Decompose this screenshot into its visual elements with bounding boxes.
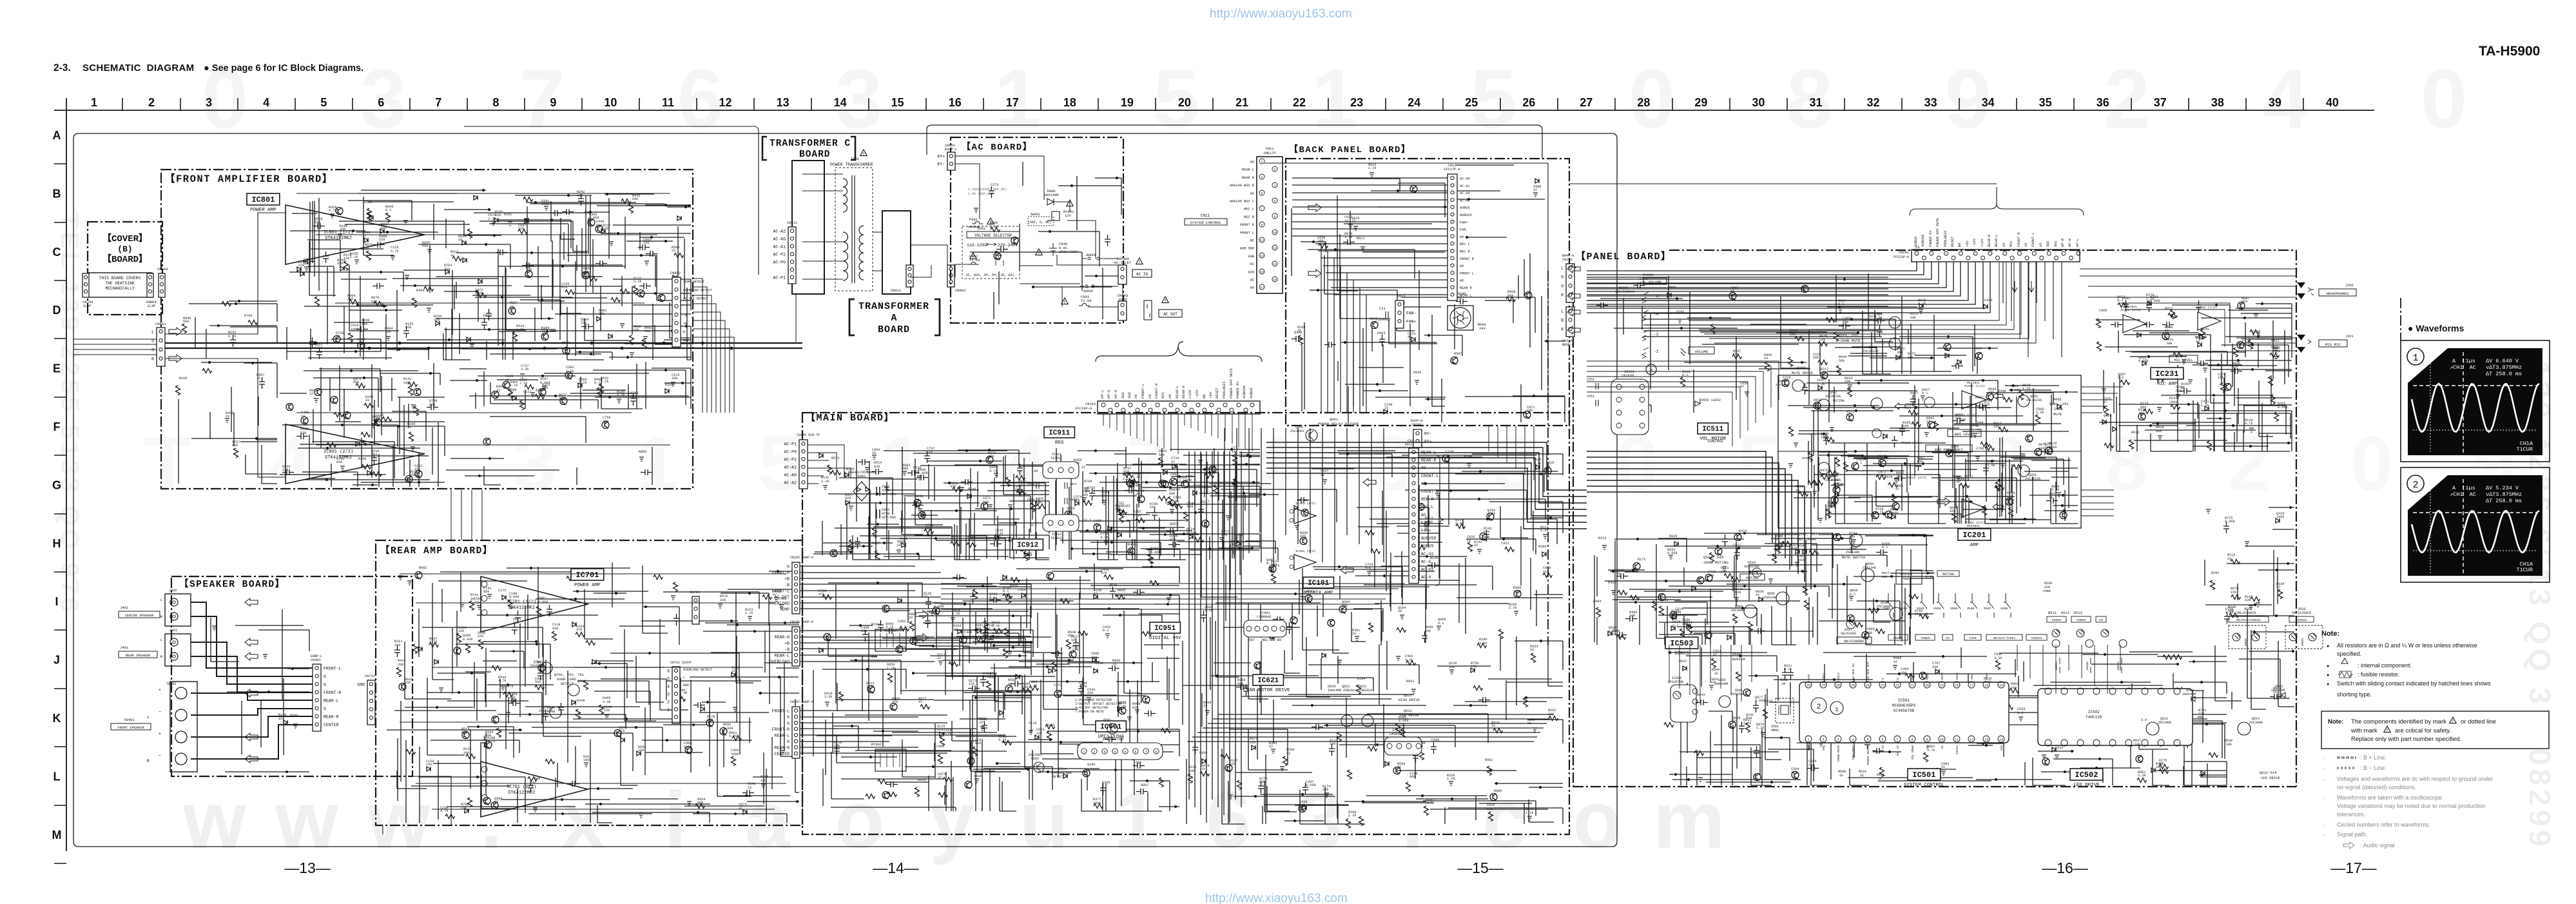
svg-text:T2.5A: T2.5A — [969, 258, 980, 262]
svg-text:22: 22 — [731, 669, 735, 673]
svg-text:56k: 56k — [1813, 356, 1819, 360]
diode D551 — [1695, 398, 1700, 406]
svg-text:19: 19 — [1121, 96, 1134, 109]
svg-text:.: . — [1402, 776, 1424, 865]
svg-text:1N4148M: 1N4148M — [2182, 693, 2196, 696]
svg-text:12: 12 — [719, 96, 732, 109]
svg-text:R950: R950 — [1010, 584, 1018, 588]
svg-text:LM393P: LM393P — [1390, 732, 1402, 736]
svg-text:AC-P0: AC-P0 — [784, 450, 797, 455]
svg-text:REAR-R: REAR-R — [324, 715, 339, 720]
capacitor C902 — [876, 509, 880, 518]
svg-text:1k: 1k — [336, 335, 340, 339]
svg-text:LB1638: LB1638 — [1622, 374, 1634, 378]
svg-text:CN731: CN731 — [365, 674, 375, 678]
svg-text:RES GND C: RES GND C — [1262, 638, 1279, 642]
svg-text:820: 820 — [975, 742, 981, 745]
svg-text:4: 4 — [1114, 751, 1116, 754]
svg-text:23: 23 — [1881, 684, 1884, 688]
svg-text:D727: D727 — [1165, 501, 1173, 505]
svg-text:100: 100 — [403, 381, 409, 385]
svg-text:R821: R821 — [2271, 339, 2279, 343]
svg-text:POWER OFF MUTE: POWER OFF MUTE — [1229, 368, 1234, 398]
svg-text:1k: 1k — [257, 377, 260, 380]
svg-text:VOL DOWN: VOL DOWN — [1911, 745, 1915, 760]
svg-text:—15—: —15— — [1457, 860, 1504, 876]
svg-text:22: 22 — [496, 389, 500, 393]
svg-text:25: 25 — [1465, 96, 1478, 109]
svg-text:1.2k: 1.2k — [510, 384, 518, 388]
svg-text:1: 1 — [91, 96, 97, 109]
svg-text:RV212 (2/2): RV212 (2/2) — [1906, 476, 1927, 480]
svg-text:2SC3623A: 2SC3623A — [2025, 477, 2040, 481]
svg-text:100: 100 — [1808, 763, 1814, 767]
svg-text:R977: R977 — [1910, 391, 1918, 395]
IC label IC801 — [247, 193, 280, 205]
svg-text:R843: R843 — [1697, 693, 1705, 697]
svg-text:68k: 68k — [632, 197, 638, 201]
svg-text:47: 47 — [450, 254, 454, 258]
op-amp IC201 1/2 — [1962, 391, 1986, 409]
svg-text:ΔT 258.0 ms: ΔT 258.0 ms — [2486, 371, 2522, 377]
connector CN101 FFC17P-H — [1409, 448, 1419, 584]
svg-text:TAPE: TAPE — [1969, 636, 1977, 640]
svg-text:220: 220 — [1821, 371, 1826, 375]
svg-text:G: G — [787, 565, 789, 569]
svg-text:a: a — [745, 776, 791, 865]
svg-text:330: 330 — [1897, 351, 1903, 355]
svg-text:GP1U57XB: GP1U57XB — [1668, 680, 1683, 684]
curly brace CN101 — [1436, 455, 1444, 585]
svg-text:RV211 (1/2): RV211 (1/2) — [1956, 413, 1977, 417]
svg-text:Replace only with part number: Replace only with part number specified. — [2351, 736, 2461, 743]
svg-text:NC: NC — [1250, 239, 1254, 243]
svg-text:MIC: MIC — [2009, 241, 2013, 247]
svg-text:L: L — [1561, 310, 1564, 314]
svg-text:G: G — [787, 715, 789, 720]
svg-text:-20dB MUTE: -20dB MUTE — [1837, 745, 1841, 763]
svg-text:0: 0 — [2421, 52, 2467, 146]
svg-text:47: 47 — [1957, 480, 1961, 484]
svg-text:1.2k: 1.2k — [1348, 814, 1356, 818]
svg-text:CNB01: CNB01 — [155, 322, 166, 326]
waveform 2 sine trace — [2412, 511, 2539, 553]
svg-text:AC-00: AC-00 — [1460, 192, 1470, 195]
svg-text:+B: +B — [784, 642, 789, 646]
main audio bus wires left — [73, 339, 157, 355]
svg-text:8: 8 — [492, 96, 499, 109]
svg-text:●: ● — [2327, 644, 2329, 649]
svg-text:820: 820 — [1675, 611, 1681, 614]
svg-text:MIX MIC: MIX MIC — [2325, 342, 2341, 347]
svg-text:4.7k: 4.7k — [1079, 685, 1087, 689]
svg-text:B0: B0 — [1202, 394, 1206, 398]
svg-text:2: 2 — [1274, 168, 1276, 172]
svg-text:R201: R201 — [2011, 384, 2019, 388]
svg-text:L: L — [151, 330, 154, 335]
transformer A board rect — [882, 211, 911, 294]
svg-text:25C3400: 25C3400 — [2158, 721, 2171, 725]
svg-text:820: 820 — [1187, 505, 1193, 509]
svg-text:47: 47 — [1846, 413, 1850, 417]
svg-text:2.2k: 2.2k — [1509, 606, 1516, 610]
svg-text:FRONT-L: FRONT-L — [2031, 232, 2035, 247]
svg-text:TA7812: TA7812 — [1051, 457, 1062, 460]
transistor Q601 — [1107, 723, 1118, 734]
svg-text:0.1: 0.1 — [1672, 624, 1678, 628]
svg-text:REC L: REC L — [1244, 208, 1254, 211]
op-amp IC231 2/2 — [2123, 315, 2146, 333]
svg-text:100k: 100k — [1821, 435, 1828, 439]
svg-text:100: 100 — [1950, 509, 1955, 513]
svg-text:RESET: RESET — [1951, 236, 1955, 247]
svg-text:330: 330 — [760, 779, 766, 783]
svg-text:C962: C962 — [1170, 473, 1178, 477]
svg-text:2SC3623A: 2SC3623A — [1825, 395, 1841, 398]
svg-text:REAR-L: REAR-L — [775, 734, 790, 738]
svg-text:1: 1 — [1114, 776, 1159, 865]
op-amp IC801 1/2 — [286, 205, 425, 264]
transformer secondary coils — [859, 226, 864, 280]
svg-text:22: 22 — [1101, 494, 1105, 498]
verticals below CN201 right half — [2003, 262, 2062, 357]
svg-text:7: 7 — [1261, 207, 1263, 211]
svg-text:9.7: 9.7 — [1031, 524, 1037, 527]
svg-text:REC-R: REC-R — [1421, 497, 1434, 502]
svg-text:B: B — [1561, 319, 1564, 323]
svg-text:100: 100 — [1629, 614, 1635, 618]
svg-text:V1: V1 — [1941, 745, 1944, 749]
svg-text:SCHEMATIC DIAGRAM: SCHEMATIC DIAGRAM — [82, 63, 194, 74]
svg-text:4.7k: 4.7k — [516, 328, 524, 332]
svg-text:100k: 100k — [2276, 515, 2284, 519]
svg-text:47: 47 — [980, 721, 983, 725]
svg-text:36: 36 — [2097, 96, 2109, 109]
svg-text:IC951: IC951 — [1154, 625, 1176, 633]
svg-text:220: 220 — [1072, 648, 1078, 652]
svg-text:1.6A (AEP,UK): 1.6A (AEP,UK) — [968, 192, 993, 196]
svg-text:STK4152MK2: STK4152MK2 — [325, 455, 352, 460]
svg-text:0.068: 0.068 — [2225, 520, 2235, 524]
svg-text:330: 330 — [444, 268, 450, 271]
svg-text:68k: 68k — [902, 467, 908, 471]
svg-text:0.068: 0.068 — [723, 727, 733, 731]
bridge rectifier D901 — [853, 482, 870, 501]
svg-text:R952: R952 — [1370, 317, 1377, 321]
svg-text:RV211 (2/2): RV211 (2/2) — [1953, 475, 1973, 478]
right vertical dashdot — [2400, 298, 2401, 340]
svg-text:SW1: SW1 — [2054, 241, 2058, 247]
svg-text:: fusible resistor.: : fusible resistor. — [2358, 671, 2399, 678]
svg-text:29: 29 — [1694, 96, 1707, 109]
svg-text:820: 820 — [845, 496, 851, 500]
svg-text:FRONT-R: FRONT-R — [772, 571, 789, 575]
svg-text:2SC2603: 2SC2603 — [1290, 429, 1304, 433]
transformer C board rect — [792, 161, 824, 294]
svg-text:A5: A5 — [2024, 243, 2028, 247]
front amp board circuitry lower right sparse — [446, 417, 652, 485]
svg-text:220: 220 — [379, 238, 385, 242]
svg-text:F: F — [53, 420, 61, 433]
svg-text:AG: AG — [1421, 482, 1426, 486]
svg-text:: B + Line.: : B + Line. — [2360, 754, 2387, 761]
speaker board circuitry — [211, 609, 309, 772]
svg-text:−: − — [159, 710, 161, 714]
svg-text:22: 22 — [937, 656, 941, 660]
svg-text:REAR L: REAR L — [1242, 168, 1254, 172]
svg-text:C159: C159 — [1446, 450, 1453, 454]
svg-text:IC701 (1/2): IC701 (1/2) — [507, 600, 536, 605]
svg-text:2: 2 — [1817, 703, 1821, 711]
svg-text:1k: 1k — [1877, 458, 1881, 462]
IC label IC101 — [1303, 577, 1333, 588]
connector CN202 BR4P-H — [1566, 264, 1574, 302]
svg-text:ANALOG BUS L: ANALOG BUS L — [1230, 200, 1254, 204]
svg-text:R895: R895 — [1494, 789, 1502, 793]
svg-text:3.3k: 3.3k — [1133, 514, 1141, 518]
svg-text:C796: C796 — [1976, 447, 1984, 451]
svg-text:6: 6 — [378, 96, 384, 109]
svg-text:24: 24 — [1866, 684, 1870, 688]
svg-text:REC R: REC R — [1460, 250, 1470, 254]
svg-text:POWER RELAY: POWER RELAY — [1866, 745, 1870, 765]
svg-text:REG: REG — [1023, 553, 1032, 558]
svg-text:A ¦1μs: A ¦1μs — [2452, 485, 2475, 491]
svg-text:56k: 56k — [913, 470, 919, 474]
Q504 transistor — [1776, 592, 1789, 605]
transformer T901 dashed box — [835, 168, 873, 291]
svg-text:330: 330 — [1014, 488, 1020, 492]
svg-text:56k: 56k — [1774, 547, 1780, 551]
svg-text:A: A — [891, 313, 896, 324]
svg-text:: Audio signal: : Audio signal — [2360, 842, 2395, 849]
svg-text:68k: 68k — [461, 731, 467, 734]
svg-text:R892: R892 — [639, 450, 646, 454]
svg-text:10k: 10k — [2044, 446, 2050, 449]
AC IN label — [1132, 270, 1152, 277]
svg-text:D313: D313 — [1984, 299, 1992, 302]
svg-text:25A1347: 25A1347 — [1776, 383, 1788, 387]
svg-text:R520: R520 — [1927, 571, 1935, 575]
svg-text:IC231: IC231 — [2155, 369, 2178, 378]
speaker wire arrows — [245, 598, 258, 606]
svg-text:FRONT-R: FRONT-R — [772, 727, 789, 732]
svg-text:SML16760CN: SML16760CN — [2292, 611, 2311, 615]
bundle front amp long rails — [296, 193, 670, 445]
svg-text:1k: 1k — [541, 329, 545, 333]
connector CNB01 BS4P — [157, 328, 165, 366]
svg-text:G: G — [787, 740, 789, 744]
svg-text:10: 10 — [1008, 682, 1012, 686]
svg-text:—16—: —16— — [2042, 860, 2088, 876]
svg-text:E: E — [53, 362, 61, 375]
Q251 mute right lower — [2018, 465, 2029, 477]
svg-text:1N4148M: 1N4148M — [1714, 682, 1728, 686]
connector CN901 EH2P-L — [947, 152, 955, 170]
svg-text:23: 23 — [1350, 96, 1363, 109]
svg-text:Voltages and waveforms are dc: Voltages and waveforms are dc with respe… — [2337, 776, 2493, 782]
svg-text:68k: 68k — [630, 395, 636, 398]
svg-text:0.1: 0.1 — [1856, 461, 1862, 465]
connector CN803 JL3P — [159, 273, 165, 297]
svg-text:9: 9 — [1926, 738, 1928, 742]
connector CN401 EHBP-L — [313, 664, 321, 731]
svg-text:820: 820 — [1487, 807, 1493, 811]
long net run front amp to transformer — [464, 126, 759, 275]
svg-text:MUTE DRIVE: MUTE DRIVE — [1792, 371, 1814, 375]
svg-text:28: 28 — [1637, 96, 1650, 109]
svg-text:68k: 68k — [483, 590, 489, 594]
svg-text:250V/400V: 250V/400V — [1059, 250, 1078, 254]
svg-text:CN401: CN401 — [311, 658, 321, 662]
svg-text:RY-: RY- — [1424, 432, 1432, 437]
svg-text:220: 220 — [2198, 712, 2204, 716]
svg-text:68k: 68k — [599, 312, 605, 316]
Q201 mute right — [2018, 395, 2029, 407]
svg-text:SML16760CN: SML16760CN — [2236, 611, 2256, 615]
svg-text:FRONT L: FRONT L — [1460, 271, 1474, 275]
svg-text:-12V: -12V — [1973, 238, 1977, 247]
svg-text:A0: A0 — [1460, 279, 1464, 283]
svg-text:●: ● — [2327, 664, 2329, 669]
svg-text:3.3k: 3.3k — [2138, 774, 2145, 778]
svg-text:0.068: 0.068 — [463, 638, 473, 642]
svg-text:25C2603: 25C2603 — [1731, 693, 1745, 696]
mic jack J201 — [2297, 335, 2305, 353]
svg-text:CN12: CN12 — [1448, 163, 1456, 168]
svg-text:RY-: RY- — [937, 162, 945, 167]
svg-text:o: o — [1573, 776, 1622, 865]
svg-text:7: 7 — [1896, 738, 1898, 742]
svg-text:TRANSFORMER: TRANSFORMER — [858, 301, 929, 312]
svg-text:S501: S501 — [1883, 607, 1891, 611]
AC board outline — [951, 137, 1123, 323]
svg-text:REAR-L: REAR-L — [324, 699, 339, 703]
svg-text:3.3k: 3.3k — [1994, 656, 2002, 660]
svg-text:ANALOG BUS R: ANALOG BUS R — [1230, 184, 1255, 188]
op-amp IC801 2/2 — [286, 424, 425, 484]
svg-text:EH2P-L: EH2P-L — [945, 148, 957, 152]
svg-text:1k: 1k — [1397, 765, 1401, 769]
svg-text:CN702 5CN7P: CN702 5CN7P — [670, 661, 692, 665]
source select labels — [1888, 634, 1908, 640]
svg-text:47: 47 — [1713, 653, 1717, 657]
svg-text:G: G — [52, 478, 61, 491]
jumper JW903 — [1083, 257, 1103, 260]
motor M — [1646, 364, 1656, 375]
svg-text:R956: R956 — [1848, 454, 1855, 458]
svg-text:JW904: JW904 — [1083, 290, 1093, 293]
svg-text:—13—: —13— — [284, 860, 331, 876]
BBS FREQUENCY box — [1926, 445, 1972, 452]
svg-text:C118: C118 — [1029, 722, 1036, 725]
svg-text:● See page 6 for IC Block Diag: ● See page 6 for IC Block Diagrams. — [204, 63, 363, 74]
svg-text:R265: R265 — [665, 383, 673, 387]
svg-text:2.2k: 2.2k — [519, 382, 527, 386]
svg-text:4: 4 — [1274, 184, 1276, 188]
svg-text:MC68HC05P9: MC68HC05P9 — [1892, 703, 1915, 708]
svg-text:!: ! — [2452, 720, 2454, 724]
panel bottom LEDs D511-D516 top right — [2052, 640, 2127, 647]
svg-text:c: c — [1482, 776, 1527, 865]
svg-text:Circled numbers refer to wavef: Circled numbers refer to waveforms. — [2337, 821, 2430, 828]
svg-text:AC OUT: AC OUT — [1163, 312, 1177, 317]
svg-text:4.7k: 4.7k — [440, 809, 448, 813]
svg-text:MECHANICALLY: MECHANICALLY — [105, 286, 135, 291]
svg-text:FAN MOTOR DRIVE: FAN MOTOR DRIVE — [1246, 688, 1290, 693]
svg-text:56k: 56k — [422, 244, 428, 248]
main board outline — [802, 413, 1569, 834]
svg-text:JW261: JW261 — [2055, 662, 2058, 671]
svg-text:100: 100 — [1917, 460, 1922, 464]
svg-text:νΔT3.875MHz: νΔT3.875MHz — [2486, 364, 2522, 371]
svg-text:VOLUME: VOLUME — [1695, 349, 1709, 354]
svg-text:S504: S504 — [1933, 607, 1941, 611]
svg-text:110-120V: 110-120V — [967, 243, 987, 248]
svg-text:10: 10 — [508, 392, 512, 396]
svg-text:31: 31 — [1809, 96, 1822, 109]
svg-text:820: 820 — [232, 444, 238, 447]
svg-text:1k: 1k — [1530, 648, 1534, 652]
svg-text:MUTING: MUTING — [1746, 576, 1758, 580]
svg-text:0: 0 — [1561, 275, 1564, 280]
svg-text:G: G — [324, 674, 326, 679]
svg-text:10k/100kX4: 10k/100kX4 — [1615, 290, 1634, 294]
svg-text:FRONT-L: FRONT-L — [772, 709, 789, 714]
svg-text:1k: 1k — [1201, 767, 1205, 771]
connector CNB13 SCN7P — [788, 227, 796, 284]
svg-text:AU BUS OUT: AU BUS OUT — [1866, 662, 1870, 680]
svg-text:12V: 12V — [1065, 213, 1072, 218]
svg-text:820: 820 — [336, 460, 342, 464]
svg-text:42V/50V: 42V/50V — [882, 516, 896, 520]
svg-text:FRONT R: FRONT R — [1460, 257, 1474, 261]
svg-text:820: 820 — [373, 418, 378, 422]
svg-text:15k: 15k — [604, 709, 610, 712]
svg-text:0.068: 0.068 — [934, 605, 944, 609]
svg-text:330: 330 — [337, 262, 343, 266]
svg-text:IC911: IC911 — [1049, 429, 1070, 437]
svg-text:FRONT-R: FRONT-R — [1421, 489, 1438, 494]
svg-text:CN13: CN13 — [1397, 295, 1406, 299]
svg-text:4: 4 — [1248, 420, 1292, 507]
svg-text:220: 220 — [1230, 762, 1235, 766]
svg-text:D396: D396 — [1102, 781, 1110, 785]
svg-text:TEMP: TEMP — [779, 607, 789, 612]
svg-text:J401: J401 — [120, 645, 129, 650]
svg-text:47: 47 — [1740, 385, 1744, 389]
svg-text:AU BUS IN: AU BUS IN — [1852, 663, 1855, 680]
svg-text:100: 100 — [2156, 765, 2162, 769]
svg-text:JL3P: JL3P — [82, 304, 91, 308]
svg-text:D901: D901 — [857, 474, 866, 478]
back panel board outline — [1286, 159, 1569, 426]
svg-text:10: 10 — [1344, 219, 1348, 223]
rear amp to main wires — [383, 776, 451, 834]
svg-text:POWER RELAY DRIVER: POWER RELAY DRIVER — [1318, 422, 1359, 426]
svg-text:R167: R167 — [872, 542, 880, 545]
svg-text:100: 100 — [2011, 686, 2017, 690]
svg-text:5: 5 — [1738, 420, 1781, 507]
svg-text:AG: AG — [1250, 286, 1254, 290]
svg-text:30: 30 — [1752, 96, 1765, 109]
connector CN702 5CN7P — [672, 667, 680, 723]
svg-text:0.068: 0.068 — [589, 216, 599, 220]
svg-text:M5218AL: M5218AL — [1967, 524, 1980, 528]
svg-text:FRONT-L: FRONT-L — [324, 667, 341, 671]
svg-text:10: 10 — [1071, 638, 1075, 642]
svg-text:G: G — [324, 707, 326, 711]
